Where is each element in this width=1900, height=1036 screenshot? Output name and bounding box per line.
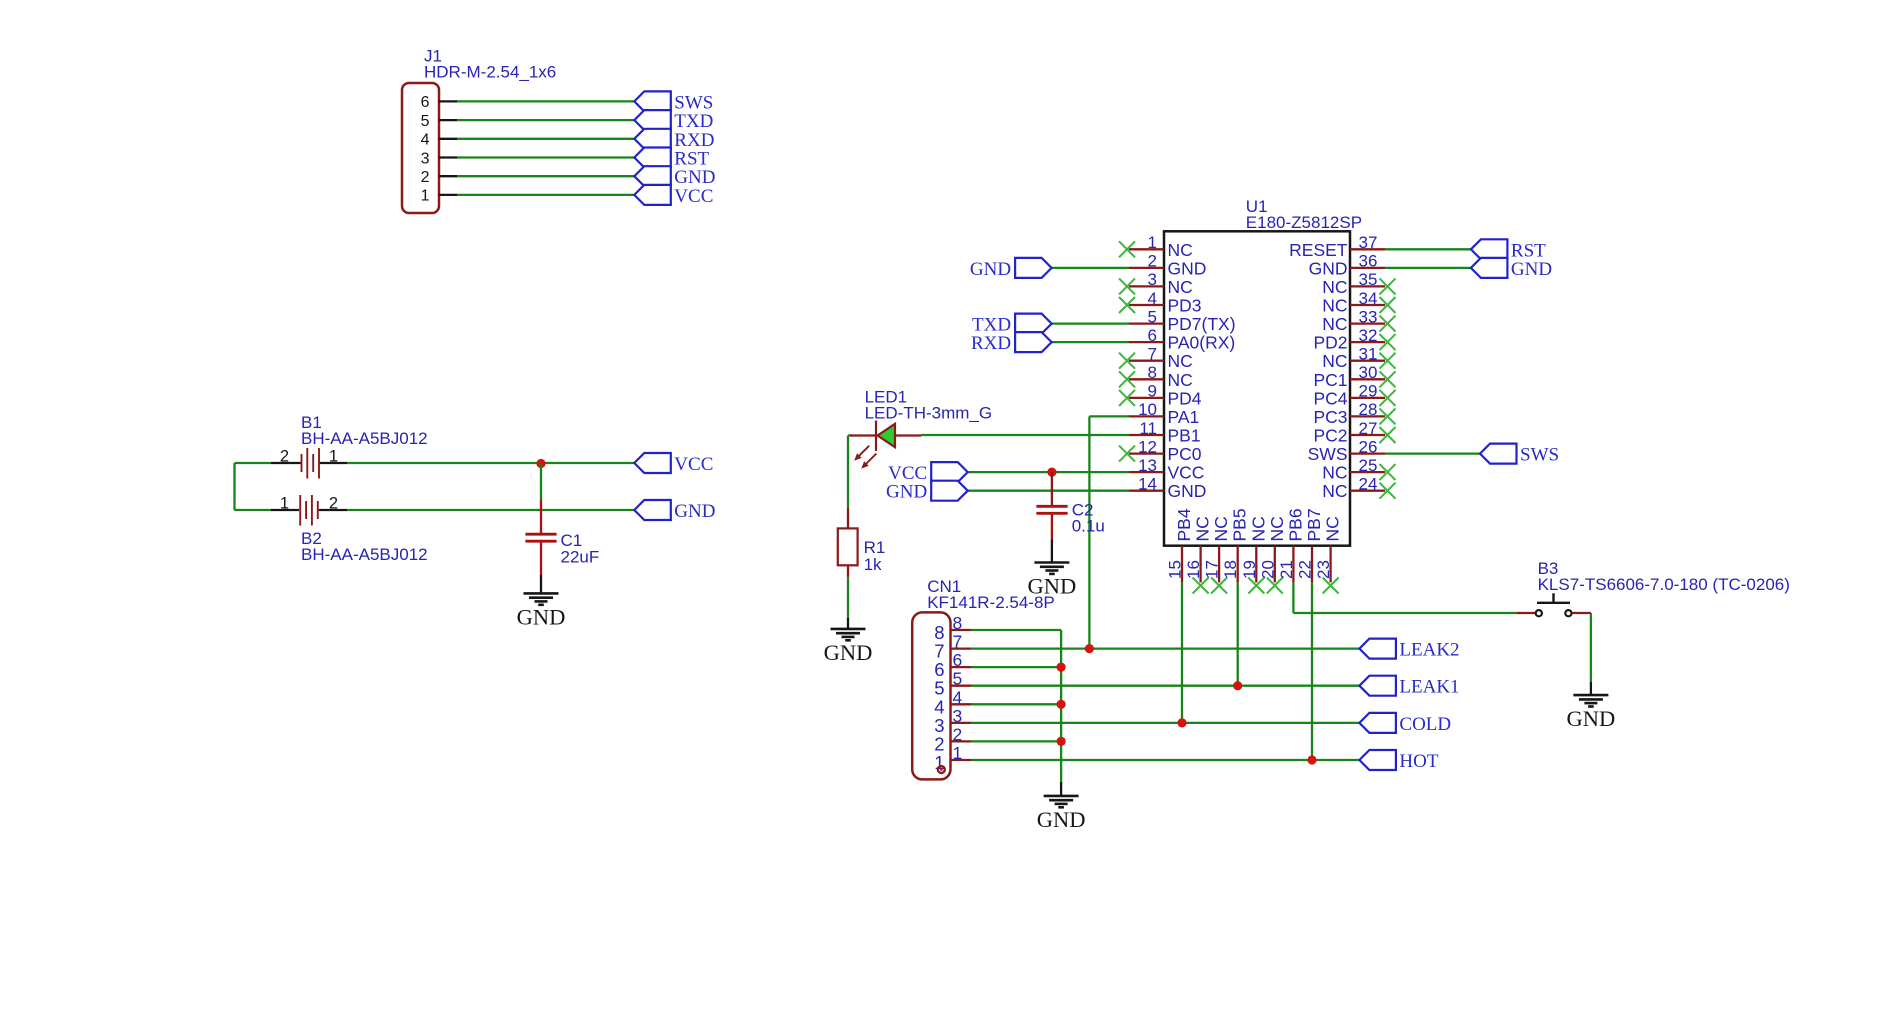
net flag VCC <box>888 462 968 484</box>
svg-text:2: 2 <box>421 169 430 186</box>
net flag GND <box>886 481 968 503</box>
wire PB4 vertical to COLD <box>1181 582 1183 723</box>
svg-text:HOT: HOT <box>1399 751 1438 772</box>
capacitor C1 <box>525 500 556 575</box>
U1 pin 12 PC0 <box>1119 437 1202 464</box>
svg-text:11: 11 <box>1139 419 1157 438</box>
IC U1 reference label <box>1246 197 1362 232</box>
capacitor C2 <box>1036 472 1067 539</box>
svg-text:PD3: PD3 <box>1168 296 1202 316</box>
CN1 pin 8 <box>934 613 971 643</box>
svg-text:RESET: RESET <box>1289 240 1348 260</box>
svg-text:BH-AA-A5BJ012: BH-AA-A5BJ012 <box>301 545 428 564</box>
net flag RST <box>1471 239 1546 261</box>
net flag SWS <box>634 91 713 113</box>
CN1 pin 1 <box>934 743 971 773</box>
junction VCC/C1 <box>536 459 545 468</box>
net flag VCC <box>634 453 713 475</box>
junction VCC/C2 <box>1047 468 1056 477</box>
U1 pin 23 NC <box>1314 516 1343 593</box>
U1 pin 27 PC2 <box>1313 419 1395 446</box>
svg-text:1k: 1k <box>864 555 882 574</box>
junction PB4/COLD <box>1177 718 1186 727</box>
svg-text:KF141R-2.54-8P: KF141R-2.54-8P <box>927 593 1055 612</box>
C1 value label <box>561 531 600 567</box>
battery B2 <box>271 495 347 526</box>
svg-text:GND: GND <box>517 604 566 629</box>
svg-text:20: 20 <box>1258 560 1277 579</box>
U1 pin 2 GND <box>1129 252 1206 279</box>
net flag LEAK2 <box>1359 639 1459 661</box>
wire R1 to ground <box>847 577 849 618</box>
svg-text:GND: GND <box>886 482 927 503</box>
svg-text:NC: NC <box>1322 277 1347 297</box>
ground C2 <box>1028 563 1077 599</box>
svg-text:LEAK1: LEAK1 <box>1399 677 1459 698</box>
svg-text:12: 12 <box>1138 437 1157 456</box>
net flag LEAK1 <box>1359 676 1459 698</box>
wire J1 pin 4 to RXD <box>457 138 634 140</box>
wire C1 to ground <box>540 575 542 593</box>
CN1 pin 6 <box>934 650 971 680</box>
wire B2 right to GND <box>347 509 634 511</box>
svg-text:PC1: PC1 <box>1313 370 1347 390</box>
svg-text:NC: NC <box>1168 240 1193 260</box>
svg-text:37: 37 <box>1359 233 1378 252</box>
svg-text:15: 15 <box>1166 560 1185 579</box>
svg-text:NC: NC <box>1211 516 1231 541</box>
CN1 pin 3 <box>934 706 971 736</box>
svg-text:NC: NC <box>1323 516 1343 541</box>
U1 pin 30 PC1 <box>1313 363 1395 390</box>
ground B3 <box>1567 695 1616 731</box>
svg-text:LED-TH-3mm_G: LED-TH-3mm_G <box>865 404 993 423</box>
svg-text:1: 1 <box>953 743 963 763</box>
svg-text:E180-Z5812SP: E180-Z5812SP <box>1246 213 1362 232</box>
U1 pin 20 NC <box>1258 516 1287 593</box>
svg-text:1: 1 <box>421 188 430 205</box>
U1 pin 8 NC <box>1119 363 1193 390</box>
svg-text:VCC: VCC <box>1168 463 1205 483</box>
wire battery left vertical <box>233 463 235 510</box>
wire U1 pin37 to RST <box>1385 248 1471 250</box>
wire VCC flag to U1 pin13 <box>968 471 1129 473</box>
net flag GND <box>1471 258 1552 280</box>
J1 pin 2 <box>421 169 457 186</box>
wire J1 pin 3 to RST <box>457 156 634 158</box>
svg-text:GND: GND <box>1511 259 1552 280</box>
svg-text:PD2: PD2 <box>1313 333 1347 353</box>
CN1 pin 5 <box>934 669 971 699</box>
svg-text:GND: GND <box>1309 258 1348 278</box>
CN1 pin 4 <box>934 687 971 717</box>
wire CN1 pin4 to bus <box>971 703 1061 705</box>
wire B1 left <box>235 462 272 464</box>
svg-text:5: 5 <box>421 113 430 130</box>
svg-text:NC: NC <box>1168 277 1193 297</box>
wire CN1 pin1 to HOT <box>971 759 1359 761</box>
net flag TXD <box>972 314 1052 336</box>
svg-text:18: 18 <box>1221 560 1240 579</box>
svg-text:GND: GND <box>1168 481 1207 501</box>
net flag RST <box>634 148 709 170</box>
svg-text:6: 6 <box>1148 326 1157 345</box>
svg-text:2: 2 <box>1148 252 1157 271</box>
wire J1 pin 6 to SWS <box>457 100 634 102</box>
U1 pin 31 NC <box>1322 345 1395 372</box>
J1 pin 4 <box>421 132 457 149</box>
svg-text:GND: GND <box>674 501 715 522</box>
U1 pin 1 NC <box>1119 233 1193 260</box>
wire PA1 vertical to LEAK2 <box>1088 416 1090 648</box>
wire U1 pin26 to SWS <box>1385 452 1480 454</box>
U1 pin 14 GND <box>1129 475 1206 502</box>
svg-text:PB1: PB1 <box>1168 426 1201 446</box>
J1 pin 3 <box>421 150 457 167</box>
connector J1 body <box>402 83 439 213</box>
svg-text:1: 1 <box>1148 233 1157 252</box>
net flag GND <box>634 500 715 522</box>
svg-text:PA1: PA1 <box>1168 407 1200 427</box>
wire CN1 pin6 to bus <box>971 666 1061 668</box>
svg-text:4: 4 <box>421 132 430 149</box>
U1 pin 36 GND <box>1309 252 1385 279</box>
battery B1 label <box>301 413 428 448</box>
U1 pin 7 NC <box>1119 345 1193 372</box>
svg-text:GND: GND <box>1567 706 1616 731</box>
net flag VCC <box>634 185 713 207</box>
CN1 pin1 marker <box>938 766 945 773</box>
junction PB7/HOT <box>1307 755 1316 764</box>
svg-text:6: 6 <box>953 650 963 670</box>
svg-text:3: 3 <box>953 706 963 726</box>
svg-text:1: 1 <box>280 495 289 513</box>
svg-text:NC: NC <box>1267 516 1287 541</box>
svg-text:PB6: PB6 <box>1285 508 1305 541</box>
svg-text:NC: NC <box>1322 463 1347 483</box>
svg-text:21: 21 <box>1277 560 1296 579</box>
wire J1 pin 1 to VCC <box>457 194 634 196</box>
svg-text:LEAK2: LEAK2 <box>1399 640 1459 661</box>
connector J1 reference label <box>424 47 556 82</box>
svg-text:HDR-M-2.54_1x6: HDR-M-2.54_1x6 <box>424 63 556 82</box>
svg-text:NC: NC <box>1322 481 1347 501</box>
switch B3 <box>1516 593 1591 616</box>
svg-text:16: 16 <box>1184 560 1203 579</box>
wire GND flag to U1 pin14 <box>968 490 1129 492</box>
U1 pin 22 PB7 <box>1296 508 1325 582</box>
U1 pin 34 NC <box>1322 289 1395 316</box>
U1 pin 32 PD2 <box>1313 326 1395 353</box>
svg-text:PC0: PC0 <box>1168 444 1202 464</box>
svg-text:3: 3 <box>421 150 430 167</box>
svg-text:34: 34 <box>1359 289 1378 308</box>
junction bus pin2 <box>1057 737 1066 746</box>
svg-text:NC: NC <box>1322 351 1347 371</box>
net flag SWS <box>1480 444 1559 466</box>
U1 pin 19 NC <box>1240 516 1269 593</box>
svg-text:COLD: COLD <box>1399 714 1451 735</box>
svg-text:1: 1 <box>329 448 338 466</box>
wire CN1 pin3 to COLD <box>971 722 1359 724</box>
svg-text:PD4: PD4 <box>1168 388 1202 408</box>
svg-text:VCC: VCC <box>674 454 713 475</box>
svg-text:BH-AA-A5BJ012: BH-AA-A5BJ012 <box>301 429 428 448</box>
svg-text:3: 3 <box>1148 270 1157 289</box>
net flag COLD <box>1359 713 1451 735</box>
svg-text:NC: NC <box>1168 351 1193 371</box>
J1 pin 5 <box>421 113 457 130</box>
wire ground stub <box>847 618 849 629</box>
svg-text:NC: NC <box>1193 516 1213 541</box>
svg-text:30: 30 <box>1359 363 1378 382</box>
svg-text:22: 22 <box>1296 560 1315 579</box>
svg-text:19: 19 <box>1240 560 1259 579</box>
J1 pin 6 <box>421 94 457 111</box>
wire J1 pin 5 to TXD <box>457 119 634 121</box>
svg-text:26: 26 <box>1359 437 1378 456</box>
svg-text:22uF: 22uF <box>561 548 600 567</box>
net flag TXD <box>634 110 713 132</box>
U1 pin 10 PA1 <box>1129 400 1199 427</box>
LED1 reference label <box>865 388 993 423</box>
wire PB5 vertical to LEAK1 <box>1237 582 1239 685</box>
U1 pin 37 RESET <box>1289 233 1385 260</box>
R1 value label <box>864 538 886 574</box>
switch B3 reference label <box>1538 559 1790 594</box>
U1 pin 33 NC <box>1322 307 1395 334</box>
wire TXD flag to U1 pin5 <box>1052 322 1129 324</box>
wire B2 left <box>235 509 272 511</box>
U1 pin 17 NC <box>1203 516 1232 593</box>
U1 pin 3 NC <box>1119 270 1193 297</box>
wire CN1 pin8 to ground bus <box>971 629 1061 631</box>
svg-text:2: 2 <box>953 724 963 744</box>
svg-text:PD7(TX): PD7(TX) <box>1168 314 1236 334</box>
svg-text:25: 25 <box>1359 456 1378 475</box>
U1 pin 15 PB4 <box>1166 508 1195 582</box>
U1 pin 26 SWS <box>1308 437 1385 464</box>
wire CN1 pin2 to bus <box>971 740 1061 742</box>
net flag RXD <box>971 332 1052 354</box>
connector CN1 reference label <box>927 577 1055 612</box>
junction bus pin4 <box>1057 700 1066 709</box>
ground CN1 bus <box>1037 796 1086 832</box>
svg-text:PC3: PC3 <box>1313 407 1347 427</box>
svg-text:23: 23 <box>1314 560 1333 579</box>
net flag GND <box>970 258 1052 280</box>
svg-text:5: 5 <box>1148 307 1157 326</box>
svg-text:NC: NC <box>1322 314 1347 334</box>
svg-text:NC: NC <box>1322 296 1347 316</box>
wire ground bus vertical <box>1060 630 1062 782</box>
svg-text:14: 14 <box>1138 475 1157 494</box>
svg-text:GND: GND <box>1168 258 1207 278</box>
svg-text:PA0(RX): PA0(RX) <box>1168 333 1236 353</box>
IC U1 body <box>1164 231 1350 545</box>
U1 pin 29 PC4 <box>1313 382 1395 409</box>
svg-text:2: 2 <box>329 495 338 513</box>
svg-text:4: 4 <box>953 687 963 707</box>
svg-text:7: 7 <box>1148 345 1157 364</box>
resistor R1 <box>838 508 858 578</box>
wire J1 pin 2 to GND <box>457 175 634 177</box>
svg-text:NC: NC <box>1248 516 1268 541</box>
svg-text:2: 2 <box>280 448 289 466</box>
U1 pin 13 VCC <box>1129 456 1204 483</box>
wire PB6 vertical <box>1292 582 1294 613</box>
svg-text:33: 33 <box>1359 307 1378 326</box>
svg-text:PC2: PC2 <box>1313 426 1347 446</box>
net flag HOT <box>1359 750 1438 772</box>
U1 pin 21 PB6 <box>1277 508 1306 582</box>
wire bus to ground <box>1060 782 1062 796</box>
svg-text:4: 4 <box>1148 289 1157 308</box>
svg-text:0.1u: 0.1u <box>1072 517 1105 536</box>
U1 pin 4 PD3 <box>1119 289 1202 316</box>
wire B1 right to VCC <box>347 462 634 464</box>
svg-text:36: 36 <box>1359 252 1378 271</box>
U1 pin 25 NC <box>1322 456 1395 483</box>
svg-text:31: 31 <box>1359 345 1378 364</box>
svg-text:6: 6 <box>421 94 430 111</box>
svg-text:10: 10 <box>1138 400 1157 419</box>
svg-text:7: 7 <box>953 632 963 652</box>
svg-text:8: 8 <box>1148 363 1157 382</box>
connector CN1 body <box>912 612 950 779</box>
ground C1 <box>517 593 566 629</box>
CN1 pin 7 <box>934 632 971 662</box>
wire CN1 pin7 to LEAK2 <box>971 647 1359 649</box>
wire C2 to ground <box>1051 540 1053 563</box>
wire LED vertical to R1 <box>847 436 849 508</box>
U1 pin 28 PC3 <box>1313 400 1395 427</box>
wire C1 top <box>540 464 542 501</box>
junction PB5/LEAK1 <box>1233 681 1242 690</box>
U1 pin 9 PD4 <box>1119 382 1202 409</box>
U1 pin 6 PA0(RX) <box>1129 326 1235 353</box>
U1 pin 35 NC <box>1322 270 1395 297</box>
svg-text:PB5: PB5 <box>1230 508 1250 541</box>
battery B2 label <box>301 529 428 564</box>
svg-text:9: 9 <box>1148 382 1157 401</box>
svg-text:17: 17 <box>1203 560 1222 579</box>
svg-text:13: 13 <box>1138 456 1157 475</box>
svg-text:KLS7-TS6606-7.0-180 (TC-0206): KLS7-TS6606-7.0-180 (TC-0206) <box>1538 575 1790 594</box>
svg-text:1: 1 <box>934 752 944 773</box>
U1 pin 11 PB1 <box>1129 419 1201 446</box>
svg-text:SWS: SWS <box>1520 445 1559 466</box>
svg-text:29: 29 <box>1359 382 1378 401</box>
wire RXD flag to U1 pin6 <box>1052 341 1129 343</box>
svg-text:GND: GND <box>1037 807 1086 832</box>
wire GND flag to U1 pin2 <box>1052 267 1129 269</box>
svg-text:GND: GND <box>824 640 873 665</box>
CN1 pin 2 <box>934 724 971 754</box>
ground R1 <box>824 629 873 665</box>
svg-text:8: 8 <box>953 613 963 633</box>
wire LED to U1 pin11 <box>922 434 1130 436</box>
svg-text:GND: GND <box>970 259 1011 280</box>
svg-text:PC4: PC4 <box>1313 388 1347 408</box>
J1 pin 1 <box>421 188 457 205</box>
svg-text:35: 35 <box>1359 270 1378 289</box>
svg-text:PB7: PB7 <box>1304 508 1324 541</box>
svg-text:24: 24 <box>1359 475 1378 494</box>
wire LED left corner <box>848 434 852 436</box>
junction bus pin6 <box>1057 663 1066 672</box>
U1 pin 18 PB5 <box>1221 508 1250 582</box>
U1 pin 16 NC <box>1184 516 1213 593</box>
net flag RXD <box>634 129 714 151</box>
svg-text:5: 5 <box>953 669 963 689</box>
battery B1 <box>271 448 347 479</box>
svg-text:NC: NC <box>1168 370 1193 390</box>
junction PA1/LEAK2 <box>1085 644 1094 653</box>
wire CN1 pin5 to LEAK1 <box>971 685 1359 687</box>
svg-text:28: 28 <box>1359 400 1378 419</box>
C2 value label <box>1072 501 1105 536</box>
svg-text:RXD: RXD <box>971 333 1011 354</box>
svg-text:SWS: SWS <box>1308 444 1348 464</box>
svg-text:32: 32 <box>1359 326 1378 345</box>
wire B3 to ground <box>1590 613 1592 682</box>
U1 pin 24 NC <box>1322 475 1395 502</box>
U1 pin 5 PD7(TX) <box>1129 307 1236 334</box>
svg-text:VCC: VCC <box>674 186 713 207</box>
wire ground stub B3 <box>1590 682 1592 695</box>
wire PB6 to switch B3 <box>1293 612 1516 614</box>
wire U1 pin36 to GND <box>1385 267 1471 269</box>
svg-text:PB4: PB4 <box>1174 508 1194 541</box>
net flag GND <box>634 166 715 188</box>
wire PB7 vertical to HOT <box>1311 582 1313 760</box>
wire U1 pin10 PA1 <box>1089 415 1129 417</box>
svg-text:27: 27 <box>1359 419 1378 438</box>
LED LED1 <box>850 421 922 469</box>
